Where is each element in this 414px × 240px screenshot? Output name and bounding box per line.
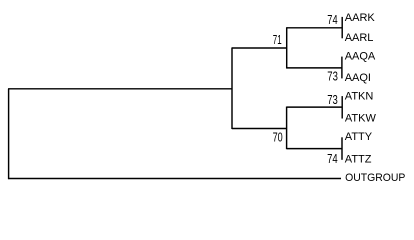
wire ingroup vertical — [231, 47, 233, 129]
svg-text:74: 74 — [327, 151, 338, 166]
svg-text:73: 73 — [327, 92, 338, 107]
svg-text:ATTZ: ATTZ — [345, 154, 372, 166]
wire root to ingroup horizontal — [8, 88, 232, 90]
wire ATTY-ATTZ tip vertical — [341, 137, 343, 160]
svg-text:71: 71 — [273, 32, 282, 47]
wire outgroup horizontal — [8, 178, 341, 180]
wire node71 vertical — [286, 27, 288, 68]
svg-text:AAQA: AAQA — [345, 50, 376, 62]
wire ingroup to node70 horizontal — [232, 128, 287, 130]
wire node70 to ATKN-ATKW clade horizontal — [287, 106, 343, 108]
svg-text:ATKN: ATKN — [345, 91, 374, 103]
svg-text:70: 70 — [273, 129, 283, 144]
wire AARK-AARL tip vertical — [341, 17, 343, 38]
wire node71 to AAQA-AAQI clade horizontal — [287, 67, 342, 69]
wire AAQA-AAQI tip vertical — [341, 57, 343, 79]
wire node70 vertical — [286, 107, 288, 150]
wire node70 to ATTY-ATTZ clade horizontal — [287, 148, 342, 150]
wire root vertical — [8, 89, 10, 179]
wire ATKN-ATKW tip vertical — [341, 96, 343, 118]
svg-text:73: 73 — [327, 69, 338, 84]
wire node71 to AARK-AARL clade horizontal — [287, 27, 343, 29]
svg-text:AAQI: AAQI — [345, 72, 371, 84]
svg-text:OUTGROUP: OUTGROUP — [345, 172, 405, 184]
svg-text:ATKW: ATKW — [345, 112, 377, 124]
svg-text:AARL: AARL — [345, 32, 374, 44]
svg-text:AARK: AARK — [345, 12, 376, 24]
svg-text:74: 74 — [327, 12, 337, 27]
wire ingroup to node71 horizontal — [232, 47, 287, 49]
svg-text:ATTY: ATTY — [345, 131, 373, 143]
